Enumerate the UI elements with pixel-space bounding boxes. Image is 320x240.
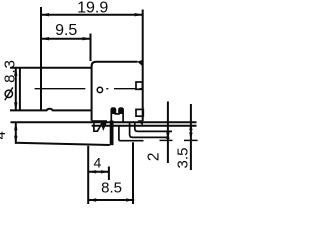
- svg-text:19.9: 19.9: [77, 0, 108, 16]
- svg-text:4: 4: [94, 155, 102, 171]
- svg-text:8.3: 8.3: [2, 59, 19, 83]
- svg-text:3.5: 3.5: [174, 148, 191, 169]
- svg-text:9.5: 9.5: [55, 22, 77, 39]
- svg-text:2: 2: [145, 152, 162, 161]
- svg-text:4: 4: [0, 131, 9, 139]
- svg-text:8.5: 8.5: [101, 179, 122, 196]
